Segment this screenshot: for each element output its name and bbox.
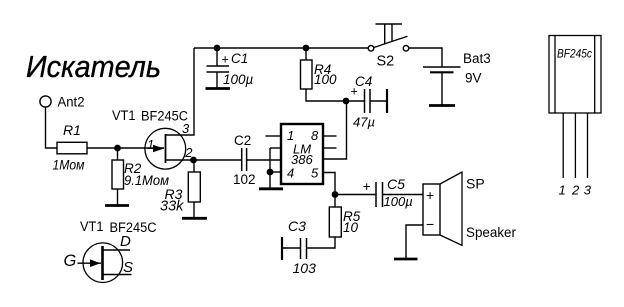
ground under op-amp: [259, 187, 283, 190]
svg-text:3: 3: [584, 183, 592, 198]
svg-text:102: 102: [233, 172, 256, 187]
svg-text:47µ: 47µ: [353, 115, 375, 130]
wire R4 to C4 node: [306, 89, 346, 101]
svg-text:+: +: [222, 53, 229, 67]
svg-text:+: +: [363, 179, 371, 194]
svg-text:3: 3: [182, 121, 190, 136]
svg-text:2: 2: [571, 183, 580, 198]
wire gate lead G: [78, 262, 102, 264]
wire output node to C5: [335, 194, 376, 196]
svg-text:9V: 9V: [465, 71, 482, 86]
node C4 junction: [343, 98, 350, 105]
svg-text:S2: S2: [377, 54, 395, 70]
ground bar left of C3: [281, 237, 283, 260]
wire source node to R3: [193, 160, 195, 172]
wire gate node to R2: [117, 148, 119, 160]
capacitor C2: [233, 133, 256, 187]
svg-text:Искатель: Искатель: [26, 49, 161, 84]
svg-text:10: 10: [343, 220, 359, 235]
svg-text:100: 100: [314, 72, 337, 87]
capacitor C5: [363, 176, 413, 209]
wire R3 to ground: [193, 202, 195, 218]
battery Bat3: [423, 51, 491, 106]
wire S2 to battery: [409, 48, 442, 67]
antenna Ant2: [40, 94, 85, 110]
svg-text:R1: R1: [63, 122, 81, 138]
resistor R5: [329, 195, 360, 238]
resistor R3: [160, 172, 200, 215]
svg-text:Bat3: Bat3: [463, 51, 491, 66]
svg-text:D: D: [120, 233, 131, 250]
transistor VT1: [112, 108, 188, 169]
wire R2 to ground: [117, 189, 119, 206]
svg-text:BF245C: BF245C: [110, 220, 157, 235]
ground under battery: [429, 104, 455, 107]
svg-text:BF245c: BF245c: [557, 48, 592, 60]
wire C5 to speaker: [383, 194, 424, 196]
ground bar right of C4: [386, 89, 388, 113]
pin 7 stub: [323, 147, 337, 149]
switch S2: [368, 24, 409, 70]
pin 4 stub: [270, 171, 282, 173]
wire antenna to R1: [46, 107, 58, 148]
svg-text:1: 1: [147, 137, 154, 152]
svg-text:8: 8: [311, 128, 319, 143]
svg-text:9.1Мом: 9.1Мом: [124, 173, 169, 188]
resistor R4: [301, 48, 338, 89]
capacitor C4: [346, 74, 387, 130]
pin 1 stub: [266, 135, 282, 137]
wire pin 5 to output node: [323, 173, 335, 195]
resistor R1: [53, 122, 88, 173]
op-amp U1 LM386: [281, 124, 323, 184]
svg-text:SP: SP: [466, 176, 485, 192]
svg-text:VT1: VT1: [112, 108, 136, 123]
node source junction: [190, 157, 197, 164]
speaker SP: [423, 172, 516, 245]
wire supply rail: [194, 47, 368, 49]
wire C4 node to pin 6: [323, 101, 347, 159]
svg-text:103: 103: [293, 260, 317, 276]
svg-text:VT1: VT1: [80, 219, 104, 234]
wire R5 to C3: [307, 237, 336, 248]
node R4 junction: [303, 45, 310, 52]
node output junction: [332, 191, 339, 198]
svg-text:33k: 33k: [160, 199, 184, 215]
node pin 4 junction: [267, 169, 274, 176]
wire drain: [166, 48, 194, 135]
package leg 3: [587, 113, 589, 178]
svg-text:C1: C1: [231, 51, 248, 66]
ground under R2: [105, 204, 129, 207]
ground under R3: [182, 217, 207, 220]
svg-text:1Мом: 1Мом: [53, 157, 85, 173]
capacitor C1: [207, 48, 254, 89]
package leg 1: [562, 113, 564, 178]
wire speaker minus to ground: [406, 225, 423, 259]
ground under C1: [206, 87, 231, 90]
node C1 junction: [214, 45, 221, 52]
svg-text:100µ: 100µ: [384, 194, 413, 209]
wire R1 to gate: [87, 147, 164, 149]
svg-text:−: −: [426, 216, 434, 232]
svg-text:C4: C4: [355, 74, 372, 89]
svg-text:C3: C3: [288, 218, 306, 234]
wire C2 to pin 3: [247, 159, 281, 161]
svg-text:1: 1: [559, 183, 566, 198]
svg-text:C2: C2: [234, 133, 251, 148]
package leg 2: [574, 113, 576, 178]
package outline BF245c: [549, 36, 601, 114]
wire pin 2 to ground: [269, 148, 271, 189]
svg-text:G: G: [64, 252, 77, 270]
resistor R2: [112, 160, 169, 189]
wire drain lead D: [104, 249, 131, 251]
transistor pinout VT1 BF245C: [80, 219, 157, 283]
svg-text:4: 4: [287, 166, 294, 181]
svg-text:C5: C5: [387, 176, 405, 192]
pin 8 stub: [323, 135, 337, 137]
svg-text:Speaker: Speaker: [466, 224, 516, 240]
svg-text:+: +: [426, 187, 434, 203]
svg-text:S: S: [123, 259, 133, 276]
svg-text:100µ: 100µ: [223, 72, 254, 87]
svg-text:5: 5: [311, 166, 319, 181]
capacitor C3: [282, 218, 316, 276]
wire source lead S: [104, 274, 132, 276]
wire source node to C2: [194, 159, 242, 161]
node gate junction: [114, 145, 121, 152]
svg-text:Ant2: Ant2: [58, 94, 85, 110]
pin 2 stub: [270, 147, 281, 149]
ground under speaker: [394, 258, 418, 261]
wire source: [166, 159, 194, 161]
